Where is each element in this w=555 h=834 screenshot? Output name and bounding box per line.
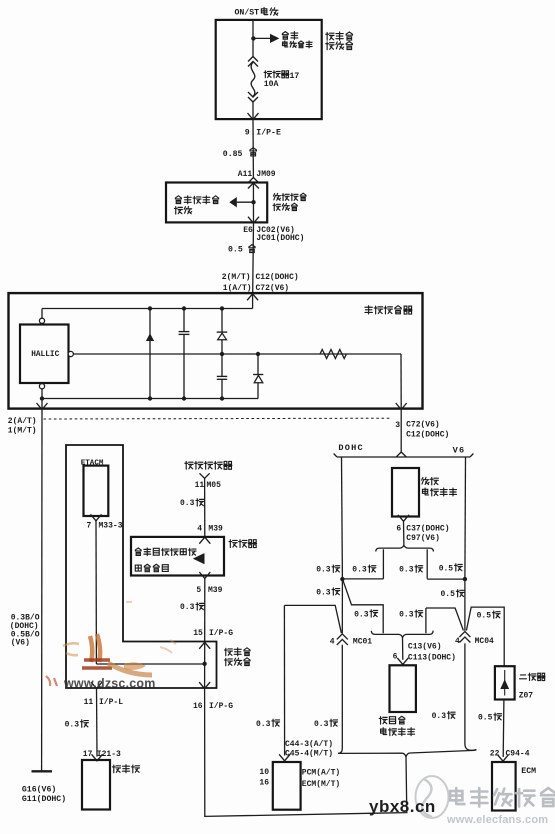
svg-text:DOHC: DOHC: [338, 443, 363, 453]
label: steering wheel control unit (转向盘/电控单元): [379, 716, 414, 735]
wire: MC04 down to merge brace: [465, 643, 476, 750]
svg-text:I/P-L: I/P-L: [99, 698, 123, 707]
label: pin 16 I/P-G: [193, 702, 233, 711]
wire: HALLIC output middle bus: [73, 353, 401, 355]
label: ON/ST power source: [235, 7, 278, 17]
pin arrow: enter instrument cluster: [92, 754, 103, 761]
svg-text:0.3: 0.3: [316, 566, 331, 575]
svg-text:C12(DOHC): C12(DOHC): [256, 273, 299, 282]
diode Z07 symbol (arrow up): [500, 670, 509, 696]
wire: DOHC node diagonal to underbrace: [343, 580, 383, 633]
svg-text:0.5: 0.5: [477, 612, 492, 621]
wire: diode Z07 to ECM: [502, 700, 505, 758]
label: ECM: [521, 767, 536, 776]
node: top bus junction 3: [220, 306, 224, 310]
svg-text:JM09: JM09: [256, 170, 275, 179]
svg-text:0.3: 0.3: [399, 611, 414, 620]
wire: tap to power-distribution reference arrow: [253, 37, 270, 39]
wire: fork from data link connector: [200, 473, 210, 478]
svg-text:0.5: 0.5: [441, 590, 456, 599]
wire: MC04 branch to underbrace: [426, 608, 464, 633]
pin arrow: cruise unit pin 6 exit: [398, 515, 409, 522]
label: pin 22 C94-4: [490, 750, 530, 759]
svg-text:I/P-G: I/P-G: [209, 629, 233, 638]
wire: M39 to I/P-G: [204, 579, 206, 642]
node: top bus junction 2: [182, 306, 186, 310]
label: diode (二极管): [520, 673, 546, 680]
arrow: reference pointer inside connector box: [193, 553, 204, 564]
svg-text:0.5: 0.5: [228, 245, 243, 254]
svg-text:M33-3: M33-3: [99, 522, 123, 531]
wire: resistor output to pin 3: [400, 354, 402, 409]
svg-text:10A: 10A: [264, 80, 279, 89]
label: pin 6 C13(V6)/C113(DOHC): [393, 643, 456, 663]
watermark: elecfans CJK text: [450, 788, 555, 806]
label: 0.3 brown (MC01 wire): [314, 719, 338, 729]
arrow: see power distribution: [270, 34, 279, 43]
svg-text:6: 6: [396, 524, 401, 533]
wire: pin 9 I/P-E down to JM09: [252, 120, 254, 178]
label: pin 15 I/P-G: [193, 629, 233, 638]
svg-text:M39: M39: [208, 525, 223, 534]
wire: brace center down, U-turn back to J/B pin 16: [205, 689, 407, 817]
svg-text:ybx8.cn: ybx8.cn: [369, 797, 436, 816]
wire: right splice branch: [427, 549, 465, 579]
svg-text:I/P-E: I/P-E: [256, 127, 281, 137]
pin arrow: steering unit pin 6: [397, 658, 408, 665]
node: middle bus junction 1: [220, 352, 224, 356]
svg-text:17: 17: [290, 72, 300, 81]
svg-text:4: 4: [455, 637, 460, 646]
wire: sensor pin3 down to DOHC/V6 split: [400, 410, 402, 453]
svg-text:www.elecfans.com: www.elecfans.com: [446, 814, 548, 826]
svg-text:JC01(DOHC): JC01(DOHC): [256, 234, 304, 243]
wire: merge brace above PCM/ECM: [338, 750, 476, 757]
label: pin 11 I/P-L: [84, 698, 124, 707]
svg-text:M39: M39: [208, 586, 223, 595]
svg-text:2(A/T): 2(A/T): [8, 417, 37, 426]
label: cruise control unit (巡航/电控单元): [422, 477, 457, 496]
label: wire size 0.85 purple (0.85紫): [223, 148, 257, 159]
label: 4 MC04: [455, 637, 494, 646]
svg-text:11: 11: [195, 481, 205, 490]
module: PCM/ECM box: [273, 762, 301, 810]
svg-text:22: 22: [490, 750, 500, 759]
module: cruise control unit (巡航电控单元): [392, 468, 419, 517]
label: pin 5 M39: [196, 586, 222, 595]
wire: DOHC vertical to MC01: [341, 579, 343, 633]
label: pin C44-3(A/T)/C45-4(M/T): [285, 740, 333, 759]
node: V6 junction: [463, 577, 467, 581]
svg-text:0.3: 0.3: [314, 720, 329, 729]
label: pin 11 M05: [195, 481, 222, 490]
svg-text:0.3: 0.3: [352, 566, 367, 575]
label: 0.5 brown (V6 vertical): [439, 564, 463, 574]
node: top bus junction 1: [148, 306, 152, 310]
svg-text:3: 3: [395, 421, 400, 430]
svg-text:0.3: 0.3: [316, 588, 331, 597]
label: wire 0.3 brown (0.3棕): [65, 720, 89, 729]
diode D1 (vertical, solid arrow up): [146, 309, 154, 399]
wire: fuse to pin 9: [252, 102, 254, 119]
label: pin 4 M39: [197, 525, 223, 534]
pin arrow: exit connector box: [199, 572, 210, 579]
svg-text:C97(V6): C97(V6): [406, 534, 440, 543]
ground: chassis ground G16/G11: [32, 770, 53, 772]
svg-text:0.3: 0.3: [399, 566, 414, 575]
wire: HALLIC ground to pin 2 exit: [41, 399, 43, 409]
label: 0.3 brown (below DOHC node): [316, 588, 340, 598]
wire: DOHC/V6 split bar: [334, 452, 474, 457]
watermark: www.elecfans.com text: [446, 814, 548, 826]
capacitor C1: [179, 309, 190, 399]
wire: underbrace to steering unit pin 6: [402, 637, 404, 659]
hall-effect element U1 HALLIC: [20, 325, 69, 384]
svg-text:C12(DOHC): C12(DOHC): [406, 430, 449, 439]
watermark: elecfans circle logo: [416, 776, 449, 818]
connector MC04 pin 4 (double chevron): [459, 632, 470, 643]
wire: left splice branch: [342, 549, 383, 579]
junction box: in-line connector box (连接器): [131, 537, 224, 576]
node: power tap junction: [251, 36, 255, 40]
label: 0.3 brown (right underbrace input): [399, 610, 423, 620]
svg-text:C45-4(M/T): C45-4(M/T): [285, 749, 333, 758]
label: 0.5 brown (diode to ECM wire): [478, 713, 502, 723]
label: pin 2(A/T) / 1(M/T): [8, 417, 37, 435]
wire: through engine room J/B: [252, 183, 254, 223]
svg-text:A11: A11: [238, 170, 253, 179]
svg-text:4: 4: [330, 637, 335, 646]
svg-text:16: 16: [193, 702, 203, 711]
svg-text:0.3: 0.3: [65, 720, 80, 729]
wire: M05 to M39: [204, 478, 206, 536]
wire: overbrace splice (splits to 2): [376, 545, 434, 551]
terminal: HALLIC output pin: [68, 351, 73, 356]
pin arrow: supply entering sensor box: [247, 294, 258, 301]
diode D3 (cathode bar above, open triangle apex up): [253, 354, 263, 399]
label: see passenger wiring (参考助手席/接线): [174, 196, 218, 214]
wire: entry drop to top bus: [252, 294, 254, 309]
svg-text:C13(V6): C13(V6): [408, 643, 442, 652]
wire: V6 branch vertical: [464, 457, 467, 579]
svg-text:ECM(M/T): ECM(M/T): [302, 780, 340, 789]
wire: underbrace splice (merge to steering unit): [371, 631, 433, 638]
junction box: passenger compartment J/B (top): [216, 20, 322, 119]
svg-text:0.3: 0.3: [256, 720, 271, 729]
label: vehicle speed sensor (车速传感器): [365, 306, 412, 314]
wire: top supply bus inside sensor: [42, 308, 253, 310]
svg-text:0.5: 0.5: [478, 714, 493, 723]
label: pin 1(A/T) C72(V6): [223, 284, 289, 293]
label: see power distribution (参考/电源分布): [282, 32, 312, 48]
svg-text:0.85: 0.85: [223, 150, 243, 159]
label: wire 0.3 brown (0.3棕): [180, 499, 204, 509]
svg-text:I/P-G: I/P-G: [209, 702, 233, 711]
label: pin 6 C37(DOHC)/C97(V6): [396, 524, 449, 543]
component box: vehicle speed sensor (车速传感器): [9, 293, 423, 409]
wire: bottom ground bus inside sensor: [42, 398, 258, 400]
diode D2 (cathode bar above, open triangle apex up): [217, 309, 228, 355]
label: pins 10 / 16: [259, 768, 269, 788]
node: junction in engine room J/B: [251, 200, 255, 204]
node: bottom bus junction 1: [148, 396, 152, 400]
pin arrow: enter ECM: [498, 755, 509, 762]
svg-text:0.5: 0.5: [439, 564, 454, 573]
label: pin 3 C72(V6) / C12(DOHC): [395, 420, 449, 439]
label: passenger junction box (助手席/接线盒): [326, 32, 353, 50]
svg-text:C72(V6): C72(V6): [256, 284, 290, 293]
svg-text:C44-3(A/T): C44-3(A/T): [285, 740, 333, 749]
pin arrow: enter PCM: [279, 754, 290, 761]
wire: tap to fuse: [252, 38, 254, 56]
label: passenger J/B (助手席/接线盒): [224, 648, 250, 666]
svg-text:HALLIC: HALLIC: [31, 351, 59, 359]
wire: PCM branch horizontal: [284, 605, 341, 633]
svg-text:0.3: 0.3: [180, 499, 195, 508]
fuse F17 (wavy fuse symbol with chevrons): [248, 57, 258, 103]
label: pin 17 I21-3: [83, 750, 121, 759]
wire: MC01 down to merge brace: [338, 645, 342, 754]
diode Z07 box: [495, 666, 515, 699]
svg-text:7: 7: [87, 522, 92, 531]
pin arrow: sensor pin 3 exit: [396, 403, 407, 410]
capacitor C2: [217, 354, 227, 399]
svg-text:V6: V6: [453, 445, 466, 455]
watermark: dzsc orange logo strokes: [46, 602, 176, 686]
pin arrow: exit J/B at pin 9: [248, 113, 259, 120]
watermark: www.dzsc.com text: [63, 677, 156, 691]
wire: I/P-L down to instrument cluster: [96, 689, 99, 757]
label: A11 JM09: [238, 170, 276, 179]
wire: dashed variant link: [44, 417, 392, 420]
wire: MC04 right branch to diode Z07: [466, 607, 504, 666]
svg-text:C37(DOHC): C37(DOHC): [406, 524, 449, 533]
label: data link connector (数据连接器): [185, 461, 232, 469]
svg-text:11: 11: [84, 698, 94, 707]
pin arrow: exit engine room J/B at E6: [248, 217, 259, 224]
pin arrow: exit J/B pin 16: [199, 682, 210, 689]
label: ETACM: [81, 459, 104, 467]
module: ETACM control unit inner box: [84, 466, 109, 516]
svg-text:(V6): (V6): [11, 639, 30, 648]
label: 0.3 brown (PCM wire): [256, 719, 280, 729]
pin arrow: sensor pin 2 exit: [37, 403, 48, 410]
pin arrow: enter passenger J/B pin 15: [199, 642, 210, 649]
label: pin 9 I/P-E: [245, 127, 281, 137]
svg-text:ON/ST: ON/ST: [235, 8, 260, 18]
label: fuse 17 10A (熔断器17/10A): [264, 71, 300, 89]
wire: V6 vertical to MC04: [464, 579, 466, 631]
label: instrument cluster (仪表板): [112, 765, 139, 773]
watermark: ybx8.cn text: [369, 797, 436, 816]
node: bottom bus junction 3: [220, 396, 224, 400]
node: DOHC junction: [340, 577, 344, 581]
node: junction inside passenger J/B: [202, 662, 206, 666]
svg-text:5: 5: [196, 586, 201, 595]
wire: internal link pin7 wire to I/P-G wire: [96, 663, 204, 665]
label: engine room J/B (发动机室/接线盒): [273, 193, 306, 210]
junction box: engine room J/B (发动机室接线盒): [166, 183, 267, 223]
svg-text:4: 4: [197, 525, 202, 534]
arrow: see passenger compartment wiring: [229, 197, 237, 207]
svg-text:C94-4: C94-4: [506, 750, 530, 759]
label: 0.3 brown (MC04 wire): [432, 711, 456, 721]
svg-text:ECM: ECM: [521, 767, 536, 776]
svg-text:G11(DOHC): G11(DOHC): [22, 794, 66, 804]
resistor R1: [320, 350, 346, 359]
wire: I/P-G through wire: [204, 642, 206, 687]
wire: PCM branch vertical down: [283, 605, 285, 755]
svg-text:9: 9: [245, 128, 250, 137]
label: 0.3 brown (left splice branch): [352, 565, 376, 575]
component box: instrument cluster (仪表板): [82, 760, 110, 810]
wire: bus to HALLIC top terminal: [41, 309, 43, 319]
module: ECM box: [492, 762, 516, 811]
wire: 0.5 purple down to speed sensor: [252, 222, 255, 292]
label: connector (连接器): [229, 540, 257, 548]
wire: junction to reference arrow: [237, 201, 254, 203]
label: DOHC branch: [338, 443, 363, 453]
svg-text:G16(V6): G16(V6): [22, 785, 56, 795]
label: wire 0.3 brown (0.3棕): [180, 603, 204, 613]
label: pin E6 JC02(V6) / JC01(DOHC): [243, 226, 304, 243]
junction box: ETACM housing + passenger J/B (L-shape outline): [66, 445, 217, 688]
label: ground G16(V6) / G11(DOHC): [22, 785, 66, 804]
label: 0.5 brown (below V6 node): [441, 590, 465, 600]
svg-text:www.dzsc.com: www.dzsc.com: [63, 677, 156, 691]
connector MC01 pin 4 (double chevron): [337, 634, 348, 645]
svg-text:0.3: 0.3: [432, 712, 447, 721]
svg-text:0.3: 0.3: [180, 603, 195, 612]
svg-text:15: 15: [193, 629, 203, 638]
label: 0.5 brown (diode branch): [477, 611, 501, 621]
svg-text:PCM(A/T): PCM(A/T): [302, 768, 340, 777]
label: pin 7 M33-3: [87, 522, 123, 531]
connector A11 JM09 (double chevron): [248, 178, 259, 189]
svg-text:C72(V6): C72(V6): [406, 420, 440, 429]
label: Z07: [519, 691, 534, 700]
label: 4 MC01: [330, 637, 373, 646]
svg-text:10: 10: [259, 768, 269, 777]
svg-text:C113(DOHC): C113(DOHC): [408, 654, 456, 663]
label: 0.3 brown (right splice branch): [399, 565, 423, 575]
label: wire 0.3B/O (DOHC) 0.5B/O (V6): [10, 613, 40, 647]
node: middle bus junction 2: [256, 352, 260, 356]
module: steering wheel control unit box: [390, 665, 416, 712]
label: PCM(A/T) ECM(M/T): [302, 768, 340, 789]
svg-text:1(M/T): 1(M/T): [8, 427, 37, 436]
svg-text:17: 17: [83, 750, 93, 759]
svg-text:6: 6: [393, 652, 398, 661]
node: ground bus corner junction: [40, 396, 44, 400]
wire: ETACM pin7 down through J/B: [95, 521, 97, 664]
svg-text:1(A/T): 1(A/T): [223, 284, 252, 293]
label: see auto headlamp leveling (参考自动前照灯/调整装置): [135, 548, 196, 572]
label: 0.3 brown (left underbrace input): [354, 610, 378, 620]
wire: HALLIC bottom to ground bus: [41, 389, 43, 399]
wire: DOHC branch vertical: [341, 457, 344, 579]
wire: sensor ground branch down the left side: [41, 410, 43, 771]
svg-text:MC04: MC04: [475, 637, 494, 646]
svg-text:0.3: 0.3: [354, 610, 369, 619]
pin arrow: ETACM pin 7 exit: [91, 514, 102, 521]
svg-text:MC01: MC01: [353, 637, 372, 646]
svg-text:2(M/T): 2(M/T): [222, 273, 251, 282]
terminal: HALLIC bottom pin: [39, 384, 44, 389]
wire: cruise pin6 to splice brace: [403, 521, 405, 545]
label: 0.3 brown (left of DOHC vertical): [316, 565, 340, 575]
svg-text:16: 16: [259, 778, 269, 787]
label: pin 2(M/T) C12(DOHC): [222, 273, 299, 282]
label: V6 branch: [453, 445, 466, 455]
svg-text:Z07: Z07: [519, 691, 534, 700]
wire: ON/ST feed into J/B: [252, 21, 254, 39]
svg-text:M05: M05: [207, 481, 222, 490]
svg-text:E6: E6: [243, 226, 253, 235]
label: wire size 0.5 purple (0.5紫): [228, 245, 255, 255]
pin arrow: exit J/B pin 11: [91, 682, 102, 689]
node: bottom bus junction 2: [182, 396, 186, 400]
pin arrow: enter connector box: [199, 537, 210, 544]
terminal: HALLIC top pin: [39, 318, 44, 323]
